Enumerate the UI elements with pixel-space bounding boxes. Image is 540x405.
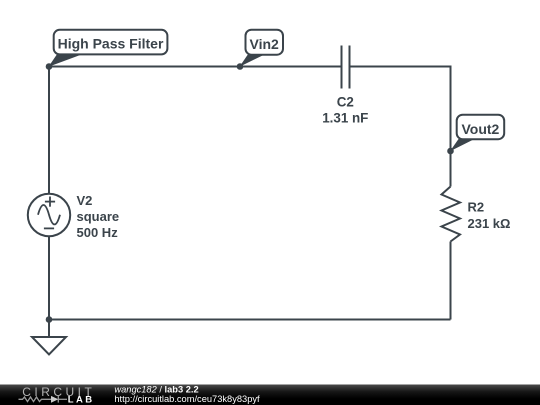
svg-text:231 kΩ: 231 kΩ: [468, 216, 511, 231]
flag High Pass Filter tail: [49, 53, 88, 67]
svg-text:High Pass Filter: High Pass Filter: [58, 36, 164, 52]
wire top-right (C2 right plate to corner, down to resistor top): [350, 67, 451, 187]
svg-text:http://circuitlab.com/ceu73k8y: http://circuitlab.com/ceu73k8y83pyf: [114, 394, 260, 404]
svg-text:square: square: [77, 209, 120, 224]
V2 minus sign: [44, 227, 54, 229]
svg-text:LAB: LAB: [68, 395, 95, 405]
node A dot (top-left junction): [46, 63, 53, 70]
footer logo resistor squiggle and diode: [19, 396, 68, 403]
wire left-lower (V2 bottom to ground junction): [48, 236, 50, 320]
svg-text:wangc182 / lab3 2.2: wangc182 / lab3 2.2: [114, 384, 198, 394]
wire right-lower (resistor bottom to bottom-right corner): [450, 242, 452, 320]
flag Vout2 tail: [450, 139, 475, 152]
voltage source V2 circle: [28, 194, 70, 236]
label V2 value: [77, 193, 120, 240]
flag High Pass Filter box: [54, 30, 168, 55]
label R2 value: [468, 200, 511, 232]
flag Vin2 box: [246, 30, 284, 55]
svg-text:500 Hz: 500 Hz: [77, 225, 119, 240]
svg-text:Vin2: Vin2: [250, 36, 280, 52]
capacitor C2 plates: [341, 46, 343, 89]
svg-text:R2: R2: [468, 200, 485, 215]
footer logo diode triangle: [51, 396, 58, 403]
svg-text:V2: V2: [77, 193, 93, 208]
node Vout2 dot: [447, 148, 454, 155]
wire left-upper (node A down to V2 top): [48, 67, 50, 195]
ground stub: [48, 320, 50, 338]
svg-text:1.31 nF: 1.31 nF: [322, 111, 368, 126]
node ground junction dot: [46, 316, 53, 323]
flag Vout2 box: [457, 115, 505, 140]
flag Vin2 tail: [240, 54, 264, 67]
V2 sine wave: [38, 205, 60, 224]
footer bar: [0, 385, 540, 405]
wire top-left (node A to C2 left plate): [49, 66, 342, 68]
node Vin2 dot: [237, 63, 244, 70]
resistor R2 zigzag: [442, 187, 461, 242]
wire bottom (bottom-right corner to ground junction): [49, 319, 451, 321]
ground triangle: [32, 337, 66, 355]
svg-text:Vout2: Vout2: [461, 121, 499, 137]
svg-text:C2: C2: [337, 95, 354, 110]
V2 plus sign: [45, 197, 55, 207]
label C2 value: [322, 95, 368, 126]
